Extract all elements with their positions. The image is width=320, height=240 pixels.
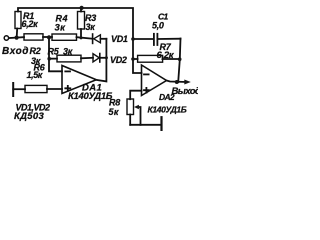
wire input to R2 — [9, 36, 24, 39]
resistor R1 — [15, 12, 21, 38]
arrow R8 wiper head — [134, 105, 139, 109]
wire ground to R6 — [13, 88, 25, 90]
svg-text:DA2: DA2 — [159, 92, 175, 102]
svg-text:R5: R5 — [48, 46, 60, 56]
svg-text:Вход: Вход — [2, 46, 29, 57]
node top bus R3 — [80, 6, 84, 10]
ground chassis bar left — [12, 83, 14, 96]
diode VD2 — [93, 54, 106, 63]
terminal input Вход — [4, 36, 8, 40]
wire left rail to DA1 inverting input — [49, 37, 62, 71]
svg-text:6,2к: 6,2к — [157, 50, 175, 61]
node R5 branch — [47, 57, 51, 61]
svg-text:3к: 3к — [55, 23, 67, 34]
op-amp DA2 — [142, 65, 167, 96]
node R7 branch — [131, 57, 135, 61]
svg-text:VD1: VD1 — [111, 34, 128, 44]
svg-text:3к: 3к — [86, 22, 96, 32]
diode VD1 — [93, 34, 107, 43]
node C1 branch — [131, 37, 135, 41]
svg-text:К140УД1Б: К140УД1Б — [148, 104, 187, 114]
resistor R6 — [25, 85, 62, 92]
svg-text:3к: 3к — [63, 46, 73, 56]
svg-text:5к: 5к — [109, 107, 119, 117]
node input junction — [15, 36, 19, 40]
svg-text:6,2к: 6,2к — [22, 19, 39, 29]
node VD2 rail — [105, 56, 108, 59]
node R2 R4 rail junction — [47, 35, 51, 39]
svg-text:R2: R2 — [30, 46, 41, 56]
node R3 bottom — [80, 36, 83, 39]
wire right feedback rail — [178, 39, 180, 83]
svg-text:Выход: Выход — [172, 86, 199, 97]
svg-text:К140УД1Б: К140УД1Б — [68, 91, 113, 102]
resistor R5 — [57, 55, 93, 62]
arrow output head — [184, 80, 191, 85]
svg-text:1,5к: 1,5к — [27, 70, 43, 80]
svg-text:VD2: VD2 — [110, 55, 127, 65]
wire DA2 noninverting input to R8 — [130, 91, 141, 100]
svg-text:5,0: 5,0 — [152, 20, 164, 30]
ground chassis bar bottom — [160, 117, 162, 130]
wire top bus from R1 to DA2 inverting rail — [18, 8, 142, 73]
wire diode rail to DA1 output — [96, 39, 106, 82]
resistor R8 trimmer — [127, 99, 141, 125]
resistor R7 — [133, 55, 180, 62]
resistor R2 — [24, 34, 52, 40]
wire DA2 output arrow Выход — [167, 81, 187, 83]
wire R5 branch — [49, 58, 57, 60]
wire R8 bottom to ground — [130, 124, 161, 126]
node output junction — [175, 80, 179, 84]
resistor R4 — [52, 34, 92, 40]
resistor R3 — [78, 8, 85, 38]
capacitor C1 — [133, 34, 181, 45]
op-amp DA1 — [62, 66, 96, 94]
svg-text:КД503: КД503 — [14, 111, 44, 122]
node R7 right — [178, 57, 182, 61]
